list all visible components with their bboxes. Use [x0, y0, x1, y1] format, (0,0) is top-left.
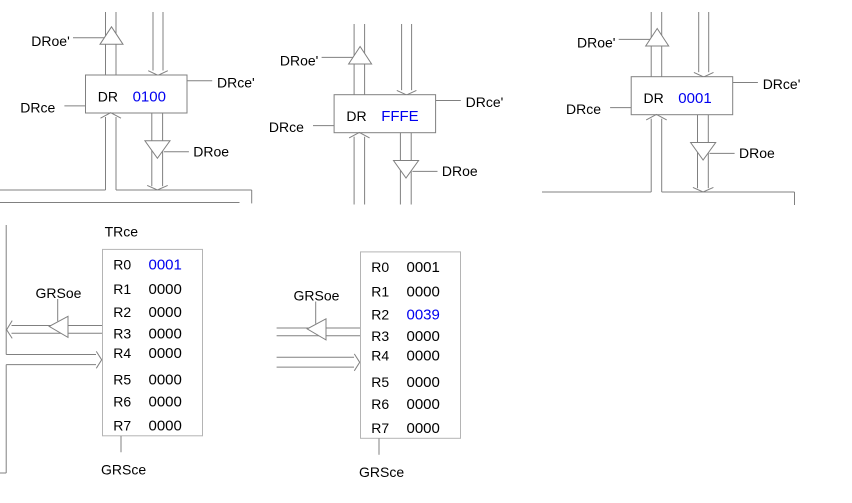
svg-text:R4: R4 — [113, 345, 131, 361]
svg-text:DRce: DRce — [566, 101, 601, 117]
svg-text:R4: R4 — [371, 348, 389, 364]
svg-text:0100: 0100 — [133, 88, 166, 105]
svg-text:DRoe: DRoe — [442, 163, 478, 179]
svg-text:0000: 0000 — [407, 284, 440, 301]
svg-text:0001: 0001 — [407, 259, 440, 276]
svg-text:0000: 0000 — [149, 281, 182, 298]
svg-text:DRoe': DRoe' — [31, 33, 69, 49]
svg-text:DRoe': DRoe' — [280, 53, 318, 69]
svg-text:GRSce: GRSce — [101, 462, 146, 478]
svg-text:FFFE: FFFE — [381, 108, 419, 125]
svg-text:DRoe: DRoe — [739, 145, 775, 161]
svg-text:0039: 0039 — [407, 307, 440, 324]
svg-text:R5: R5 — [371, 374, 389, 390]
svg-text:DRce: DRce — [269, 119, 304, 135]
svg-text:0000: 0000 — [407, 328, 440, 345]
svg-text:DR: DR — [346, 108, 366, 124]
svg-text:DR: DR — [98, 88, 118, 104]
svg-text:DRce': DRce' — [466, 94, 504, 110]
svg-text:R3: R3 — [371, 328, 389, 344]
svg-text:DRce': DRce' — [763, 76, 801, 92]
svg-text:0001: 0001 — [678, 90, 711, 107]
svg-text:DR: DR — [644, 90, 664, 106]
svg-text:R6: R6 — [371, 396, 389, 412]
svg-text:DRoe': DRoe' — [577, 35, 615, 51]
svg-text:DRoe: DRoe — [193, 144, 229, 160]
svg-text:R7: R7 — [371, 420, 389, 436]
svg-text:GRSoe: GRSoe — [36, 285, 82, 301]
svg-text:DRce': DRce' — [217, 75, 255, 91]
svg-text:R0: R0 — [113, 256, 131, 272]
svg-text:0000: 0000 — [407, 396, 440, 413]
svg-text:R2: R2 — [113, 304, 131, 320]
svg-text:TRce: TRce — [105, 223, 139, 239]
svg-text:R2: R2 — [371, 307, 389, 323]
svg-text:R1: R1 — [371, 284, 389, 300]
svg-text:R0: R0 — [371, 259, 389, 275]
svg-text:0000: 0000 — [149, 418, 182, 435]
svg-text:0000: 0000 — [407, 374, 440, 391]
svg-text:R3: R3 — [113, 326, 131, 342]
svg-text:GRSce: GRSce — [359, 464, 404, 480]
svg-text:DRce: DRce — [20, 100, 55, 116]
svg-text:R6: R6 — [113, 394, 131, 410]
svg-text:0000: 0000 — [407, 420, 440, 437]
svg-text:0000: 0000 — [149, 372, 182, 389]
svg-text:R1: R1 — [113, 281, 131, 297]
svg-text:0001: 0001 — [149, 256, 182, 273]
svg-text:0000: 0000 — [149, 345, 182, 362]
svg-text:GRSoe: GRSoe — [294, 288, 340, 304]
svg-text:0000: 0000 — [149, 304, 182, 321]
svg-text:0000: 0000 — [149, 326, 182, 343]
svg-text:0000: 0000 — [407, 348, 440, 365]
svg-text:0000: 0000 — [149, 394, 182, 411]
svg-text:R5: R5 — [113, 372, 131, 388]
svg-text:R7: R7 — [113, 418, 131, 434]
